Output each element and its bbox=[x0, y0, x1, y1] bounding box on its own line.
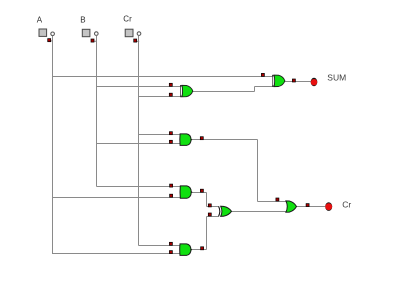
junction nub U3 output bbox=[190, 139, 192, 141]
pin U6 output bbox=[306, 204, 309, 207]
junction nub U4 output bbox=[191, 191, 193, 193]
pin U7 bottom input bbox=[169, 251, 172, 254]
pin A bbox=[48, 39, 53, 42]
wire XOR U2 output to LED SUM bbox=[284, 81, 310, 83]
pin U4 output bbox=[200, 189, 203, 192]
pin U7 output bbox=[201, 247, 204, 250]
input switch Cr bbox=[125, 29, 141, 37]
pin U7 top input bbox=[169, 242, 172, 245]
wire XOR U1 output to step bbox=[192, 91, 254, 93]
wire AND U4 output bbox=[191, 192, 207, 194]
pin U5 top input bbox=[208, 204, 211, 207]
wire B to AND U4 top input bbox=[97, 186, 181, 188]
wire AND U7 output bbox=[191, 249, 207, 251]
pin U4 bottom input bbox=[170, 194, 173, 197]
svg-text:Cr: Cr bbox=[342, 200, 351, 210]
wire Cr branch to AND U3 top input bbox=[139, 134, 180, 136]
wire A branch to XOR U2 top input bbox=[53, 76, 273, 78]
pin U1 bottom input bbox=[169, 93, 172, 96]
wire A to AND U7 bottom input bbox=[53, 253, 180, 255]
wire to OR U6 top input bbox=[258, 201, 286, 203]
pin U2 top input bbox=[261, 73, 264, 76]
pin U2 output bbox=[292, 79, 295, 82]
and gate U7 (A and Cr) bbox=[180, 244, 191, 256]
input switch A bbox=[39, 29, 54, 36]
wire U3 output vertical down bbox=[257, 140, 259, 202]
svg-text:Cr: Cr bbox=[123, 14, 132, 23]
wire Cr vertical bbox=[138, 36, 140, 246]
wire to XOR U5 bottom input bbox=[207, 216, 220, 218]
input switch B bbox=[82, 29, 98, 36]
pin U1 top input bbox=[169, 83, 172, 86]
xor gate U5 (carry combine) bbox=[219, 206, 232, 216]
wire Cr to AND U7 top input bbox=[139, 245, 180, 247]
or gate U6 (carry out) bbox=[286, 201, 297, 212]
pin U3 output bbox=[200, 137, 203, 140]
junction nub U7 output bbox=[190, 249, 192, 251]
wire B vertical bbox=[96, 36, 98, 187]
pin U3 top input bbox=[169, 132, 172, 135]
wire step to XOR U2 bottom input bbox=[255, 86, 273, 88]
pin U3 bottom input bbox=[169, 140, 172, 143]
pin B bbox=[91, 39, 97, 42]
wire A vertical bbox=[52, 36, 54, 254]
svg-text:SUM: SUM bbox=[327, 73, 346, 83]
pin U4 top input bbox=[170, 184, 173, 187]
xor gate U2 (SUM xor) bbox=[272, 75, 285, 87]
wire U7 output vertical up bbox=[206, 217, 208, 250]
and gate U3 (Cr and B) bbox=[180, 134, 191, 146]
pin U5 bottom input bbox=[208, 213, 211, 216]
LED Cr bbox=[325, 202, 332, 211]
wire U4 output vertical down bbox=[206, 193, 208, 207]
wire step vertical up bbox=[254, 87, 256, 92]
wire A branch to AND U4 bottom input bbox=[53, 197, 181, 199]
wire OR U6 output to LED Cr bbox=[296, 206, 325, 208]
svg-text:B: B bbox=[80, 16, 85, 25]
wire XOR U5 output to OR U6 bottom input bbox=[231, 211, 286, 213]
wire AND U3 output bbox=[191, 139, 258, 141]
wire to XOR U5 top input bbox=[207, 206, 220, 208]
pin Cr bbox=[134, 39, 140, 42]
xor gate U1 (B xor Cr) bbox=[180, 85, 193, 97]
svg-text:A: A bbox=[37, 16, 43, 25]
pin U6 top input bbox=[276, 198, 279, 201]
and gate U4 (B and A) bbox=[180, 186, 191, 198]
LED SUM bbox=[311, 78, 318, 86]
wire B branch to XOR U1 top input bbox=[97, 86, 181, 88]
wire B branch to AND U3 bottom input bbox=[97, 143, 180, 145]
wire Cr branch to XOR U1 bottom input bbox=[139, 96, 181, 98]
